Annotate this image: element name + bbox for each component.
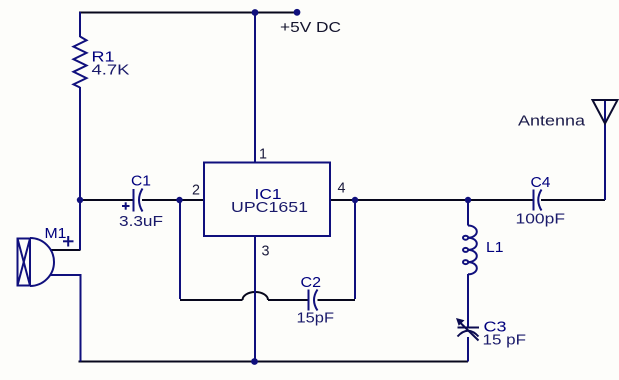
svg-text:Antenna: Antenna (518, 114, 586, 130)
svg-text:M1: M1 (45, 226, 67, 242)
svg-text:2: 2 (192, 183, 200, 199)
svg-text:3: 3 (262, 244, 270, 260)
svg-text:C1: C1 (131, 174, 151, 190)
svg-text:+5V DC: +5V DC (280, 20, 341, 36)
svg-text:C4: C4 (531, 175, 551, 191)
svg-text:1: 1 (259, 147, 267, 163)
svg-text:4.7K: 4.7K (92, 63, 130, 79)
svg-text:3.3uF: 3.3uF (119, 214, 163, 230)
svg-text:C2: C2 (301, 275, 322, 291)
svg-text:100pF: 100pF (516, 212, 566, 228)
svg-text:L1: L1 (486, 240, 504, 256)
svg-text:UPC1651: UPC1651 (231, 200, 308, 216)
svg-text:15pF: 15pF (297, 311, 335, 327)
svg-text:4: 4 (338, 181, 346, 197)
svg-text:15 pF: 15 pF (483, 333, 527, 349)
